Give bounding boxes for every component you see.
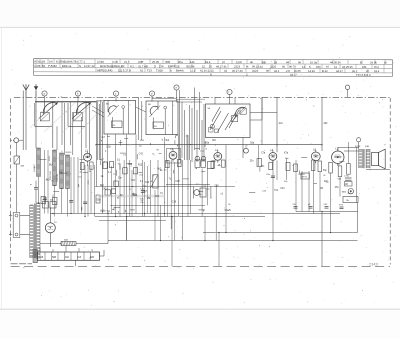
pencil smudge xyxy=(98,195,165,198)
svg-text:A: A xyxy=(210,72,212,76)
svg-text:12W: 12W xyxy=(236,60,242,64)
mains transformer S8 xyxy=(30,203,40,258)
svg-text:36B: 36B xyxy=(165,60,170,64)
wire coil verticals xyxy=(39,150,95,217)
svg-text:C73a: C73a xyxy=(344,176,350,178)
svg-text:C7a: C7a xyxy=(261,153,266,155)
wire bus heaters xyxy=(50,213,340,215)
svg-text:44.1: 44.1 xyxy=(274,69,280,73)
svg-text:T13: T13 xyxy=(147,68,152,72)
wire left of IF1 xyxy=(96,100,102,214)
svg-text:4.: 4. xyxy=(170,69,173,73)
svg-text:S12 OSC: S12 OSC xyxy=(50,170,52,180)
tube L5 xyxy=(169,148,177,162)
wire mid verticals A xyxy=(108,134,165,241)
resistor R61 xyxy=(201,160,206,168)
wire strip stubs xyxy=(40,246,92,253)
tube centre dots xyxy=(50,155,339,229)
wire HT xyxy=(40,241,108,244)
svg-text:BRZ.1a: BRZ.1a xyxy=(62,64,72,68)
resistor R21 xyxy=(80,163,85,174)
svg-text:K7a: K7a xyxy=(284,153,289,155)
svg-text:C43: C43 xyxy=(102,187,107,190)
svg-text:S13 KW: S13 KW xyxy=(57,173,59,182)
node P1 xyxy=(11,138,24,143)
switch wafer Sg xyxy=(244,145,249,153)
earth symbol xyxy=(34,84,38,97)
svg-text:9.6: 9.6 xyxy=(49,60,53,64)
svg-text:W: W xyxy=(366,69,369,73)
svg-text:R: R xyxy=(35,59,37,63)
svg-text:16.3a: 16.3a xyxy=(310,60,317,64)
antenna xyxy=(23,84,29,97)
capacitor C44 xyxy=(207,162,213,169)
resistor R27 xyxy=(269,163,273,170)
wire osc to mixer xyxy=(250,97,277,120)
svg-text:2.8: 2.8 xyxy=(286,69,290,73)
svg-text:N: N xyxy=(79,64,81,68)
mid band value labels xyxy=(100,160,163,213)
svg-text:W: W xyxy=(384,61,387,65)
svg-text:3P12: 3P12 xyxy=(302,177,308,179)
wire mid verticals C xyxy=(259,97,310,240)
svg-text:96.12.44: 96.12.44 xyxy=(252,65,263,69)
svg-text:12: 12 xyxy=(202,64,206,68)
capacitor C15 xyxy=(43,198,47,200)
svg-text:3k9: 3k9 xyxy=(324,180,329,183)
svg-text:AdR: AdR xyxy=(138,60,143,64)
resistor R52 xyxy=(123,168,127,174)
switch wafer Sb xyxy=(75,91,80,102)
svg-text:A41: A41 xyxy=(279,122,284,125)
resistor R34 xyxy=(347,164,351,175)
resistor R53 xyxy=(133,168,137,174)
switch wafer Sc xyxy=(113,91,118,102)
svg-text:B: B xyxy=(360,61,362,65)
tuning bus xyxy=(35,100,104,103)
svg-text:18k: 18k xyxy=(362,65,367,69)
svg-text:2342i: 2342i xyxy=(369,263,378,267)
svg-text:44.25.96: 44.25.96 xyxy=(342,65,353,69)
svg-text:18.4: 18.4 xyxy=(205,60,211,64)
resistor R15 xyxy=(41,197,46,204)
resistor R28 xyxy=(257,159,262,167)
svg-text:46.27.44: 46.27.44 xyxy=(232,69,243,73)
svg-text:C43: C43 xyxy=(280,187,285,190)
svg-text:96.76: 96.76 xyxy=(289,65,296,69)
svg-text:176: 176 xyxy=(159,64,164,68)
svg-text:44.27: 44.27 xyxy=(336,69,343,73)
svg-text:1M: 1M xyxy=(345,184,348,186)
svg-text:34R: 34R xyxy=(365,146,369,148)
resistor R25 xyxy=(211,161,215,168)
tube L3 xyxy=(84,150,92,164)
wire bus grid xyxy=(99,219,166,221)
svg-text:61.10.2222: 61.10.2222 xyxy=(200,69,214,73)
capacitor C7b xyxy=(43,200,49,209)
resistor R16 xyxy=(53,198,58,205)
svg-text:44.05.36: 44.05.36 xyxy=(330,60,341,64)
capacitor C30 xyxy=(30,181,38,204)
wire mixer feed xyxy=(277,97,283,152)
wire gang verticals xyxy=(57,102,90,157)
coil labels xyxy=(33,163,59,182)
svg-text:C4a/5: C4a/5 xyxy=(225,210,232,212)
AF transformer T7 xyxy=(193,184,211,199)
resistor R56 xyxy=(105,190,110,195)
resistor R24 xyxy=(178,160,182,167)
tube L8 xyxy=(311,148,320,163)
chassis boundary right xyxy=(389,98,391,265)
svg-text:K6a: K6a xyxy=(205,143,210,145)
resistor R33 xyxy=(338,166,342,181)
svg-text:M.: M. xyxy=(246,65,249,69)
coil S13 xyxy=(60,153,64,189)
potentiometer R9 xyxy=(151,175,159,188)
svg-text:97: 97 xyxy=(222,60,226,64)
svg-text:10: 10 xyxy=(209,64,213,68)
tube L4 xyxy=(214,149,222,163)
svg-text:8k2: 8k2 xyxy=(157,168,162,171)
svg-text:D: D xyxy=(154,64,156,68)
svg-text:5kB: 5kB xyxy=(64,239,68,241)
svg-text:8.1/50B/4096.7B.6.77.1: 8.1/50B/4096.7B.6.77.1 xyxy=(56,60,85,64)
svg-text:C18: C18 xyxy=(172,201,177,204)
svg-text:T23 Z.818 4.: T23 Z.818 4. xyxy=(356,73,372,77)
svg-text:184: 184 xyxy=(316,65,321,69)
value labels band B xyxy=(169,161,232,211)
svg-text:W.4: W.4 xyxy=(374,65,379,69)
svg-text:18: 18 xyxy=(274,60,278,64)
svg-text:44: 44 xyxy=(224,69,228,73)
capacitor C42b xyxy=(308,204,313,208)
coil S12 xyxy=(53,150,57,186)
capacitor C16 xyxy=(69,201,73,203)
tube L6 xyxy=(269,149,277,163)
resistor R55 xyxy=(111,189,116,193)
switch wafer Sd xyxy=(149,91,154,102)
terminal board TA xyxy=(343,197,358,203)
svg-text:61: 61 xyxy=(140,68,144,72)
wire detector bus xyxy=(96,143,322,145)
svg-text:12: 12 xyxy=(334,65,338,69)
resistor R31 xyxy=(318,161,322,172)
wire bus AF2 xyxy=(95,186,235,188)
svg-text:S11ANT: S11ANT xyxy=(33,163,36,172)
title block xyxy=(34,59,393,77)
resistor R5 box xyxy=(301,173,309,179)
svg-text:BeArb.: BeArb. xyxy=(176,69,185,73)
resistor R23 xyxy=(164,161,169,172)
wire bus screen xyxy=(110,204,205,206)
wire osc top links xyxy=(152,99,205,103)
svg-text:ABTEILUNG: ABTEILUNG xyxy=(97,68,113,72)
svg-text:302/96: 302/96 xyxy=(186,64,195,68)
value labels band C xyxy=(40,152,101,210)
svg-text:14.: 14. xyxy=(302,65,306,69)
svg-text:11.57.12: 11.57.12 xyxy=(84,64,95,68)
svg-text:11.05: 11.05 xyxy=(294,69,301,73)
value labels band E xyxy=(101,135,179,159)
wire earth lead xyxy=(35,97,37,148)
chassis boundary top xyxy=(14,96,390,98)
svg-text:34TR: 34TR xyxy=(355,146,361,148)
wire bus AVC xyxy=(95,216,265,218)
wire AF bus xyxy=(166,184,210,186)
coil S11 xyxy=(37,148,41,177)
wire strip ground xyxy=(75,260,77,266)
svg-text:44: 44 xyxy=(286,60,290,64)
svg-text:50p: 50p xyxy=(97,198,102,201)
svg-text:1M: 1M xyxy=(320,187,323,190)
svg-text:m: m xyxy=(30,184,32,186)
resistor R22 xyxy=(89,162,94,173)
value labels band G xyxy=(186,135,217,153)
coil S14 xyxy=(66,155,70,189)
capacitor C17 xyxy=(83,202,87,204)
output transformer S4b xyxy=(355,146,370,168)
svg-text:31.7.AB: 31.7.AB xyxy=(138,64,148,68)
svg-text:1A5: 1A5 xyxy=(65,256,70,259)
svg-text:C-58: C-58 xyxy=(34,64,40,68)
svg-text:EMPF.1B: EMPF.1B xyxy=(168,64,180,68)
IF transformer B6 xyxy=(146,101,178,135)
svg-text:BB: BB xyxy=(262,60,266,64)
tube L7 output xyxy=(332,147,344,166)
wire bus anode xyxy=(203,203,358,233)
wire mid verticals B xyxy=(171,135,226,241)
capacitor C43b xyxy=(324,204,329,208)
jack BB4 xyxy=(342,189,353,194)
svg-text:21.5: 21.5 xyxy=(124,60,130,64)
value labels band A xyxy=(102,161,162,212)
svg-text:R12: R12 xyxy=(138,165,143,167)
resistor R51 xyxy=(110,162,114,168)
variable capacitor C1b xyxy=(68,102,91,148)
resistor R2 xyxy=(14,156,25,168)
resistor R60 xyxy=(195,160,200,168)
chassis boundary left xyxy=(10,99,12,264)
wire speaker leads xyxy=(338,148,390,170)
pencil shading gang xyxy=(30,100,102,134)
resistor R40 xyxy=(61,239,76,245)
label C7a xyxy=(261,153,289,155)
capacitor C5a xyxy=(266,174,275,178)
oscillator switch S4 xyxy=(206,97,251,158)
svg-text:12.4: 12.4 xyxy=(190,69,196,73)
variable capacitor C1a xyxy=(35,102,58,148)
rectifier tube L9 xyxy=(45,208,57,247)
svg-text:18.4: 18.4 xyxy=(374,69,380,73)
terminal strip xyxy=(33,250,104,263)
tube shield L5 xyxy=(167,149,181,164)
svg-text:2225: 2225 xyxy=(270,65,277,69)
value labels band F xyxy=(314,161,352,195)
wire bus HT2 xyxy=(108,240,358,242)
resistor R32 xyxy=(329,162,333,173)
resistor R17 xyxy=(96,195,100,203)
svg-text:90.: 90. xyxy=(282,65,286,69)
svg-text:4k7: 4k7 xyxy=(143,190,148,193)
resistor R29 xyxy=(286,162,290,170)
wire extra verticals xyxy=(112,160,175,241)
wire bus out right xyxy=(296,212,358,267)
svg-text:4.1: 4.1 xyxy=(130,64,134,68)
svg-text:MONTAGEFEHLER: MONTAGEFEHLER xyxy=(100,64,125,68)
mains connector xyxy=(9,213,30,238)
svg-text:44.27: 44.27 xyxy=(290,73,297,77)
svg-text:24.0k: 24.0k xyxy=(370,61,377,65)
wire IF links xyxy=(139,88,205,163)
resistor R30 xyxy=(312,160,315,171)
svg-text:96.2: 96.2 xyxy=(352,69,358,73)
svg-text:B.12: B.12 xyxy=(322,69,328,73)
svg-text:14.96: 14.96 xyxy=(308,69,315,73)
wire AVC line xyxy=(322,97,328,151)
electrolytic C51 xyxy=(201,156,205,160)
resistor R26 xyxy=(222,160,226,167)
node O2 xyxy=(357,138,361,149)
capacitor C44b xyxy=(339,205,344,209)
scan speckle xyxy=(9,33,397,305)
resistor R65 xyxy=(294,164,298,172)
svg-text:C6a: C6a xyxy=(250,143,255,145)
svg-text:BL: BL xyxy=(42,64,46,68)
svg-text:K: K xyxy=(309,65,311,69)
svg-text:C18: C18 xyxy=(128,164,133,166)
resistor R50 xyxy=(103,162,107,169)
capacitor C7c xyxy=(50,200,56,209)
svg-text:14k: 14k xyxy=(190,60,195,64)
wire right verticals xyxy=(313,142,356,233)
IF transformer B5 xyxy=(104,100,136,134)
svg-text:0.1B: 0.1B xyxy=(112,60,118,64)
svg-text:T.818: T.818 xyxy=(156,68,163,72)
node P2 xyxy=(345,85,349,97)
electrolytic C50 xyxy=(195,156,199,160)
svg-text:44.27.41: 44.27.41 xyxy=(216,64,227,68)
switch wafer Se xyxy=(174,85,179,101)
svg-text:4.193: 4.193 xyxy=(38,59,45,63)
svg-text:5kB: 5kB xyxy=(52,257,56,259)
wire R2 leads xyxy=(16,143,18,213)
drawing number xyxy=(369,263,378,267)
chassis boundary bottom xyxy=(11,264,390,267)
junction dots xyxy=(38,144,331,241)
wire antenna lead xyxy=(23,91,26,151)
capacitor C73a xyxy=(344,176,352,187)
wire slant links xyxy=(92,106,146,117)
resistor R54 xyxy=(114,181,118,186)
svg-text:C18: C18 xyxy=(106,145,111,148)
svg-text:111.5.17.B: 111.5.17.B xyxy=(118,68,131,72)
svg-text:4.049: 4.049 xyxy=(97,60,104,64)
svg-text:96: 96 xyxy=(298,60,302,64)
capacitor C41b xyxy=(293,204,298,208)
value labels band D xyxy=(249,158,307,193)
wire drops xyxy=(108,205,219,266)
svg-text:P-5282: P-5282 xyxy=(48,64,57,68)
label C4a5 xyxy=(225,210,232,212)
svg-text:4kB: 4kB xyxy=(90,257,94,259)
svg-text:2223: 2223 xyxy=(252,69,259,73)
svg-text:96: 96 xyxy=(266,69,270,73)
switch wafer Sa xyxy=(42,91,47,102)
svg-text:97: 97 xyxy=(326,65,330,69)
svg-text:96a: 96a xyxy=(178,60,183,64)
loudspeaker xyxy=(372,149,386,169)
svg-text:2.: 2. xyxy=(246,73,249,77)
svg-text:C18: C18 xyxy=(175,180,180,183)
switch wafer Sf xyxy=(227,89,232,104)
svg-text:2223: 2223 xyxy=(234,65,241,69)
capacitor C41 xyxy=(140,189,145,193)
svg-text:29.05: 29.05 xyxy=(152,60,159,64)
svg-text:25n: 25n xyxy=(335,186,340,189)
